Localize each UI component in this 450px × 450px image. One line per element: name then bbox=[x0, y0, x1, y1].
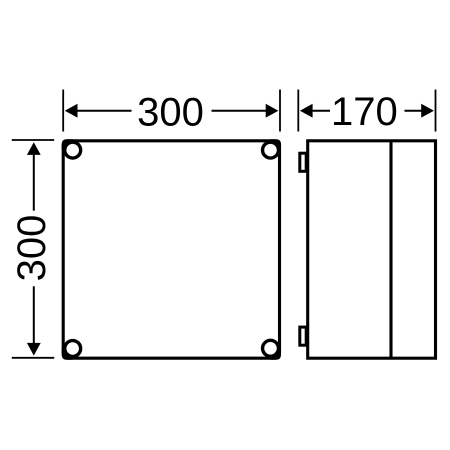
svg-text:300: 300 bbox=[137, 91, 204, 135]
dimension 300 (top width): left extension line bbox=[62, 90, 64, 132]
dimension 170 (depth): left arrowhead bbox=[300, 104, 313, 118]
screw circle top-left bbox=[65, 142, 81, 158]
dimension 170 (depth): dimension line left segment bbox=[310, 110, 330, 112]
dimension 170 (depth): right arrowhead bbox=[421, 104, 434, 118]
dimension 300 (left height): top extension line bbox=[12, 139, 54, 141]
dimension 170 (depth): right extension line bbox=[435, 90, 437, 132]
dimension 300 (top width): right extension line bbox=[279, 90, 281, 132]
dimension 170 (depth): dimension line right segment bbox=[405, 110, 425, 112]
screw circle top-right bbox=[263, 142, 279, 158]
side view: lid parting line bbox=[389, 141, 392, 358]
front view: corner gusset top-left bbox=[62, 139, 73, 150]
side view: lid clip top bbox=[300, 153, 306, 171]
dimension 300 (top width): right arrowhead bbox=[266, 104, 279, 118]
dimension 300 (left height): bottom extension line bbox=[12, 357, 54, 359]
front view: corner gusset top-right bbox=[270, 139, 281, 150]
side view: enclosure depth outline 170 bbox=[308, 141, 436, 358]
screw circle bottom-right bbox=[263, 340, 279, 356]
screw circle bottom-left bbox=[65, 341, 81, 357]
svg-text:300: 300 bbox=[10, 215, 54, 282]
svg-text:170: 170 bbox=[331, 90, 398, 134]
dimension 300 (left height): bottom arrowhead bbox=[27, 343, 41, 356]
side view: lid clip bottom bbox=[300, 327, 306, 345]
front view: corner gusset bottom-left bbox=[62, 349, 73, 360]
dimension 300 (top width): dimension line right segment bbox=[212, 110, 269, 112]
front view: corner gusset bottom-right bbox=[270, 349, 281, 360]
dimension 170 (depth): left extension line bbox=[297, 90, 299, 132]
dimension 300 (left height): dimension line top segment bbox=[33, 153, 35, 211]
dimension 300 (top width): dimension line left segment bbox=[75, 110, 132, 112]
dimension 300 (left height): dimension line bottom segment bbox=[33, 286, 35, 345]
dimension 300 (top width): left arrowhead bbox=[65, 104, 78, 118]
dimension 300 (left height): top arrowhead bbox=[27, 142, 41, 155]
front view: enclosure body outline 300x300 bbox=[63, 141, 279, 358]
